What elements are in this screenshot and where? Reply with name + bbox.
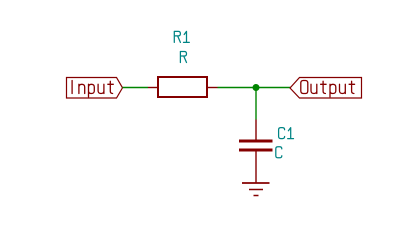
global label Input [67, 78, 123, 99]
resistor R1 [148, 77, 218, 97]
reference label C1 [279, 128, 294, 139]
wire: C1 pin 2 to ground [255, 169, 257, 183]
ground [242, 183, 270, 196]
junction at node Vout [253, 84, 260, 91]
reference label R1 [174, 31, 189, 42]
wire: junction to Output flag [256, 87, 291, 89]
capacitor C1 [239, 120, 273, 170]
value label R [180, 52, 186, 63]
global label Output [290, 78, 362, 99]
wire: Input flag to R1 pin 1 [123, 87, 149, 89]
wire: junction to C1 pin 1 [255, 88, 257, 120]
value label C [276, 147, 282, 158]
wire: R1 pin 2 to junction [218, 87, 257, 89]
